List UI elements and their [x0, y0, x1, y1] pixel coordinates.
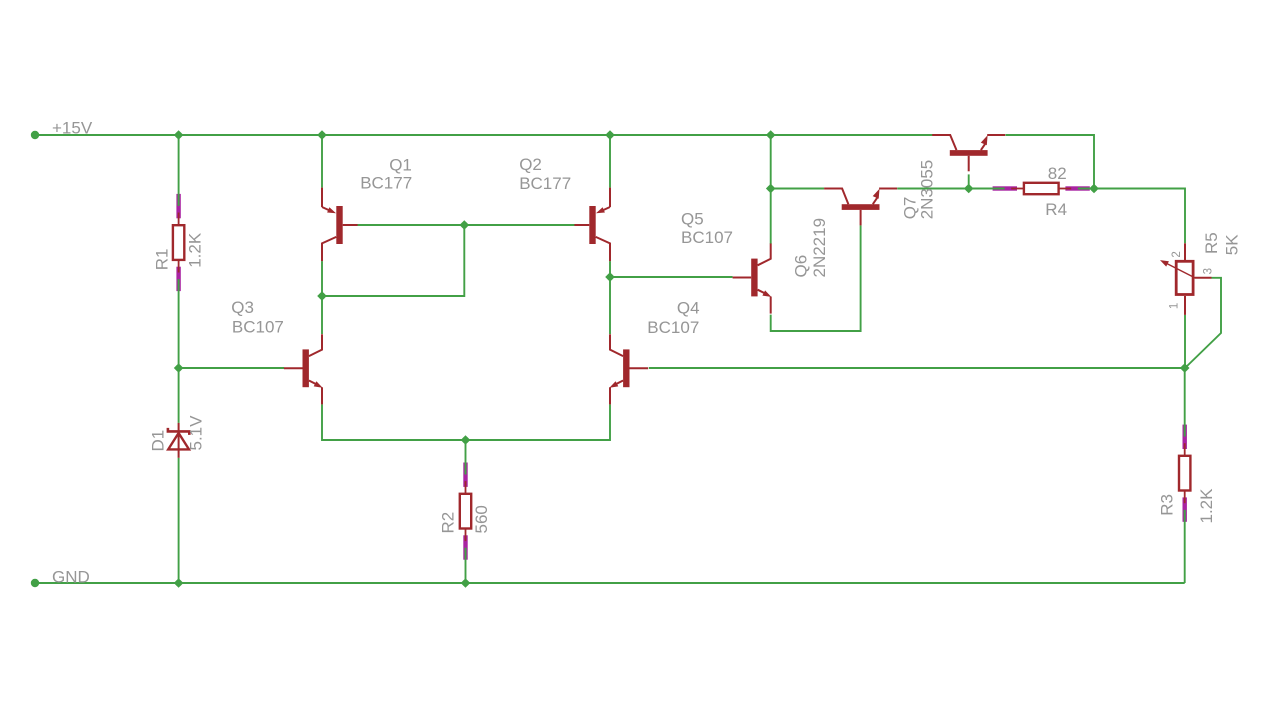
- wire node A to Q3 base: [179, 367, 285, 369]
- junction jog left: [317, 291, 327, 301]
- junction base jog: [460, 220, 470, 230]
- wire Q2 emitter from rail: [609, 135, 611, 188]
- wire R1 bottom to node A: [178, 279, 180, 368]
- svg-text:Q6: Q6: [791, 255, 810, 278]
- junction GND D1: [174, 578, 184, 588]
- svg-text:BC177: BC177: [360, 174, 412, 193]
- junction node D: [1180, 363, 1190, 373]
- junction output R4: [1089, 184, 1099, 194]
- svg-text:BC177: BC177: [519, 174, 571, 193]
- potentiometer R5 5K: [1160, 243, 1212, 315]
- svg-text:560: 560: [472, 505, 491, 533]
- wire Q1 emitter from rail: [321, 135, 323, 188]
- svg-text:2N3055: 2N3055: [917, 160, 936, 220]
- svg-text:R3: R3: [1158, 494, 1177, 516]
- transistor Q1 BC177: [322, 188, 358, 262]
- wire +15V rail right segment to output corner: [1006, 135, 1095, 189]
- wire feedback Q4 base to node D: [649, 367, 1185, 369]
- resistor R1 1.2K: [173, 194, 184, 291]
- wire R2 top: [465, 440, 467, 475]
- junction Q7 base: [964, 184, 974, 194]
- svg-text:BC107: BC107: [232, 318, 284, 337]
- svg-text:Q2: Q2: [519, 155, 542, 174]
- svg-text:Q4: Q4: [677, 299, 700, 318]
- wire Q1-Q2 base link: [358, 224, 576, 226]
- transistor Q5 BC107: [733, 244, 772, 314]
- wire rail drop to node C: [770, 135, 772, 189]
- node +15V rail end: [31, 131, 39, 139]
- svg-text:5.1V: 5.1V: [187, 415, 206, 451]
- wire R5 pin3 loop: [1185, 278, 1221, 368]
- wire R5 pin1 to node D: [1184, 315, 1186, 368]
- wire Q5 emitter to Q6 base: [771, 225, 861, 331]
- svg-text:Q3: Q3: [231, 298, 254, 317]
- wire Q3 emitter to R2 node to Q4 emitter: [322, 404, 610, 440]
- junction rail R1: [174, 130, 184, 140]
- transistor Q3 BC107: [284, 334, 323, 404]
- junction node B: [605, 272, 615, 282]
- wire +15V rail: [35, 134, 933, 136]
- wire node C to Q6 collector: [771, 188, 824, 190]
- wire node D to R3: [1184, 368, 1186, 436]
- wire jog junction to Q3 collector: [321, 296, 323, 334]
- resistor R2 560: [460, 463, 471, 560]
- svg-text:BC107: BC107: [681, 228, 733, 247]
- wire node C to Q5 collector: [770, 189, 772, 245]
- svg-text:1.2K: 1.2K: [185, 232, 204, 268]
- svg-text:R2: R2: [438, 512, 457, 534]
- svg-text:R4: R4: [1045, 200, 1067, 219]
- svg-text:82: 82: [1048, 164, 1067, 183]
- svg-text:Q1: Q1: [389, 155, 412, 174]
- wire Q1 collector down to jog junction: [321, 261, 323, 296]
- wire R4 right to output corner to R5: [1078, 189, 1185, 244]
- wire R1 top from rail: [178, 135, 180, 206]
- junction emitters R2: [461, 435, 471, 445]
- svg-text:+15V: +15V: [52, 119, 93, 138]
- transistor Q6 2N2219: [824, 189, 897, 226]
- svg-text:2: 2: [1171, 251, 1183, 257]
- svg-text:Q5: Q5: [681, 210, 704, 229]
- wire node B to Q4 collector: [609, 277, 611, 334]
- transistor Q7 2N3055: [932, 135, 1005, 171]
- svg-text:5K: 5K: [1222, 234, 1241, 255]
- resistor R3 1.2K: [1179, 425, 1190, 522]
- wire node A to D1: [178, 368, 180, 423]
- wire Q2 collector to node B: [609, 261, 611, 277]
- junction rail drop: [766, 130, 776, 140]
- wire D1 to GND: [178, 458, 180, 583]
- junction node C: [766, 184, 776, 194]
- junction rail Q2 emitter: [605, 130, 615, 140]
- wire GND rail: [35, 582, 1185, 584]
- junction rail Q1 emitter: [317, 130, 327, 140]
- svg-text:GND: GND: [52, 567, 90, 586]
- svg-text:R5: R5: [1202, 232, 1221, 254]
- svg-text:D1: D1: [148, 430, 167, 452]
- junction GND R2: [461, 578, 471, 588]
- svg-text:R1: R1: [152, 249, 171, 271]
- diode D1 zener 5.1V: [168, 423, 189, 458]
- wire Q6 emitter to Q7 base node to R4: [897, 188, 992, 190]
- transistor Q4 BC107: [609, 334, 648, 404]
- transistor Q2 BC177: [574, 188, 610, 262]
- wire R2 bottom to GND: [465, 548, 467, 583]
- wire node B to Q5 base: [610, 276, 733, 278]
- svg-text:1: 1: [1169, 303, 1181, 309]
- resistor R4 82: [993, 183, 1090, 194]
- svg-text:1.2K: 1.2K: [1197, 488, 1216, 524]
- junction node A: [174, 363, 184, 373]
- node GND rail end: [31, 579, 39, 587]
- wire base jog: [322, 225, 464, 296]
- wire Q7 base stub to node: [968, 174, 970, 188]
- wire R3 to GND corner: [1184, 510, 1186, 583]
- svg-text:BC107: BC107: [647, 318, 699, 337]
- svg-text:2N2219: 2N2219: [810, 218, 829, 278]
- svg-text:3: 3: [1202, 268, 1214, 274]
